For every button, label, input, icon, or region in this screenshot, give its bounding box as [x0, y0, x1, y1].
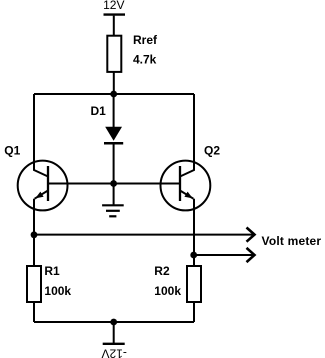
- wire top rail to D1 anode: [113, 94, 115, 128]
- wire bottom rail: [34, 321, 194, 323]
- power -12V bar: [103, 343, 125, 345]
- transistor Q1 emitter arrowhead: [35, 192, 43, 199]
- wire volt meter upper lead: [34, 234, 254, 236]
- ground bar 1: [102, 204, 124, 206]
- svg-text:12V: 12V: [103, 0, 124, 12]
- junction top rail center: [110, 91, 117, 98]
- wire Rref bottom to top rail: [113, 72, 115, 94]
- svg-text:D1: D1: [91, 104, 107, 118]
- transistor Q2 circle: [161, 161, 211, 211]
- transistor Q2 collector (wire from top rail): [180, 94, 194, 177]
- svg-text:R1: R1: [44, 264, 60, 278]
- ground stub: [113, 184, 115, 206]
- svg-text:Rref: Rref: [133, 33, 158, 47]
- junction Q2 emitter / volt meter: [190, 252, 197, 259]
- transistor Q1 collector (wire from top rail): [34, 94, 48, 177]
- wire R1 bottom to bottom rail: [33, 302, 35, 322]
- resistor R2: [187, 266, 201, 302]
- diode D1 cathode bar: [104, 142, 123, 145]
- wire D1 cathode to base node: [113, 143, 115, 183]
- svg-text:-12V: -12V: [102, 346, 127, 358]
- svg-text:Q2: Q2: [204, 143, 220, 157]
- wire volt meter lower lead: [194, 254, 254, 256]
- junction Q1 emitter / volt meter: [31, 231, 38, 238]
- wire 12V bar to Rref top: [113, 16, 115, 36]
- diode D1 triangle: [105, 127, 122, 141]
- junction bottom rail center: [110, 319, 117, 326]
- transistor Q1 emitter: [35, 191, 48, 199]
- wire Q1 emitter down to R1: [33, 199, 35, 266]
- wire Q2 emitter down to R2: [193, 199, 195, 266]
- ground bar 3: [109, 215, 116, 217]
- wire base rail Q1 to Q2: [48, 183, 180, 185]
- svg-text:R2: R2: [154, 264, 170, 278]
- wire bottom rail to -12V bar: [113, 322, 115, 344]
- wire top rail: [34, 93, 194, 95]
- junction base node: [110, 180, 117, 187]
- svg-text:100k: 100k: [154, 284, 181, 298]
- power +12V bar: [104, 13, 126, 15]
- ground bar 2: [106, 210, 120, 212]
- svg-text:Volt meter: Volt meter: [262, 234, 322, 248]
- wire R2 bottom to bottom rail: [193, 302, 195, 322]
- transistor Q1 circle: [18, 161, 68, 211]
- svg-text:100k: 100k: [44, 284, 71, 298]
- resistor Rref: [107, 36, 121, 72]
- resistor R1: [27, 266, 41, 302]
- transistor Q2 emitter: [180, 191, 193, 199]
- transistor Q2 base bar: [179, 166, 181, 201]
- transistor Q2 emitter arrowhead: [184, 192, 192, 199]
- svg-text:Q1: Q1: [4, 143, 20, 157]
- arrowhead volt meter upper: [247, 228, 255, 242]
- svg-text:4.7k: 4.7k: [133, 53, 157, 67]
- transistor Q1 base bar: [47, 166, 49, 201]
- arrowhead volt meter lower: [247, 248, 255, 262]
